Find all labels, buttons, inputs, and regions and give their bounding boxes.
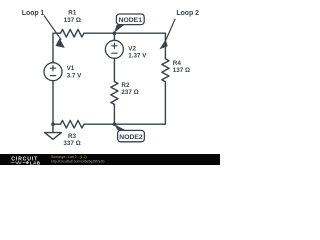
label Loop 2 — [176, 10, 199, 17]
svg-text:LAB: LAB — [30, 161, 41, 166]
junction node A — [113, 31, 117, 35]
wire node A to top-right corner — [114, 33, 165, 59]
label R3 value 337 Ω — [63, 133, 80, 147]
resistor R1 — [61, 29, 85, 37]
svg-text:http://circuitlab.com/c46e5q28: http://circuitlab.com/c46e5q28f7e9b — [51, 159, 105, 163]
label V2 value 1.37 V — [128, 45, 147, 59]
svg-text:R4: R4 — [173, 60, 182, 67]
svg-text:R2: R2 — [121, 82, 130, 89]
label R2 value 237 Ω — [121, 82, 138, 96]
footer bar — [0, 154, 220, 166]
svg-text:1.37 V: 1.37 V — [128, 53, 147, 60]
wire R2 to node NODE2 junction — [113, 104, 115, 124]
node NODE2 flag — [114, 124, 144, 142]
wire V2 to R2 — [113, 58, 115, 81]
wire R4 to bottom-right corner — [114, 82, 165, 125]
resistor R4 — [162, 59, 169, 82]
svg-text:237 Ω: 237 Ω — [121, 89, 138, 96]
ground — [45, 124, 62, 139]
label Loop 1 — [22, 10, 45, 17]
svg-text:NODE1: NODE1 — [119, 17, 143, 24]
svg-text:V1: V1 — [67, 65, 75, 72]
wire V1 to ground junction — [52, 81, 54, 125]
wire R1 to node A — [84, 32, 114, 34]
label R1 value 137 Ω — [64, 10, 81, 24]
junction ground node — [51, 122, 55, 126]
loop annotation Loop 1 arrow — [44, 16, 65, 48]
loop annotation Loop 2 arrow — [160, 19, 176, 50]
svg-text:NODE2: NODE2 — [119, 134, 143, 141]
voltage source V2 — [105, 40, 123, 58]
wire top-left corner to R1 — [53, 33, 61, 62]
wire node A down to V2 — [113, 33, 115, 40]
wire bottom between nodes — [84, 123, 114, 125]
voltage source V1 — [44, 63, 62, 81]
svg-text:137 Ω: 137 Ω — [64, 17, 81, 24]
svg-text:Loop 1: Loop 1 — [22, 10, 45, 17]
node NODE1 flag — [114, 14, 144, 33]
svg-text:137 Ω: 137 Ω — [173, 67, 190, 74]
resistor R2 — [111, 82, 118, 105]
svg-text:R1: R1 — [68, 10, 77, 17]
wire R3 to ground junction — [53, 123, 61, 125]
label V1 value 3.7 V — [67, 65, 83, 79]
svg-text:337 Ω: 337 Ω — [63, 140, 80, 147]
svg-text:3.7 V: 3.7 V — [67, 72, 83, 79]
label R4 value 137 Ω — [173, 60, 190, 74]
resistor R3 — [61, 120, 85, 128]
svg-text:Loop 2: Loop 2 — [176, 10, 199, 17]
svg-text:V2: V2 — [128, 45, 136, 52]
junction node B — [113, 122, 117, 126]
svg-text:R3: R3 — [68, 133, 77, 140]
